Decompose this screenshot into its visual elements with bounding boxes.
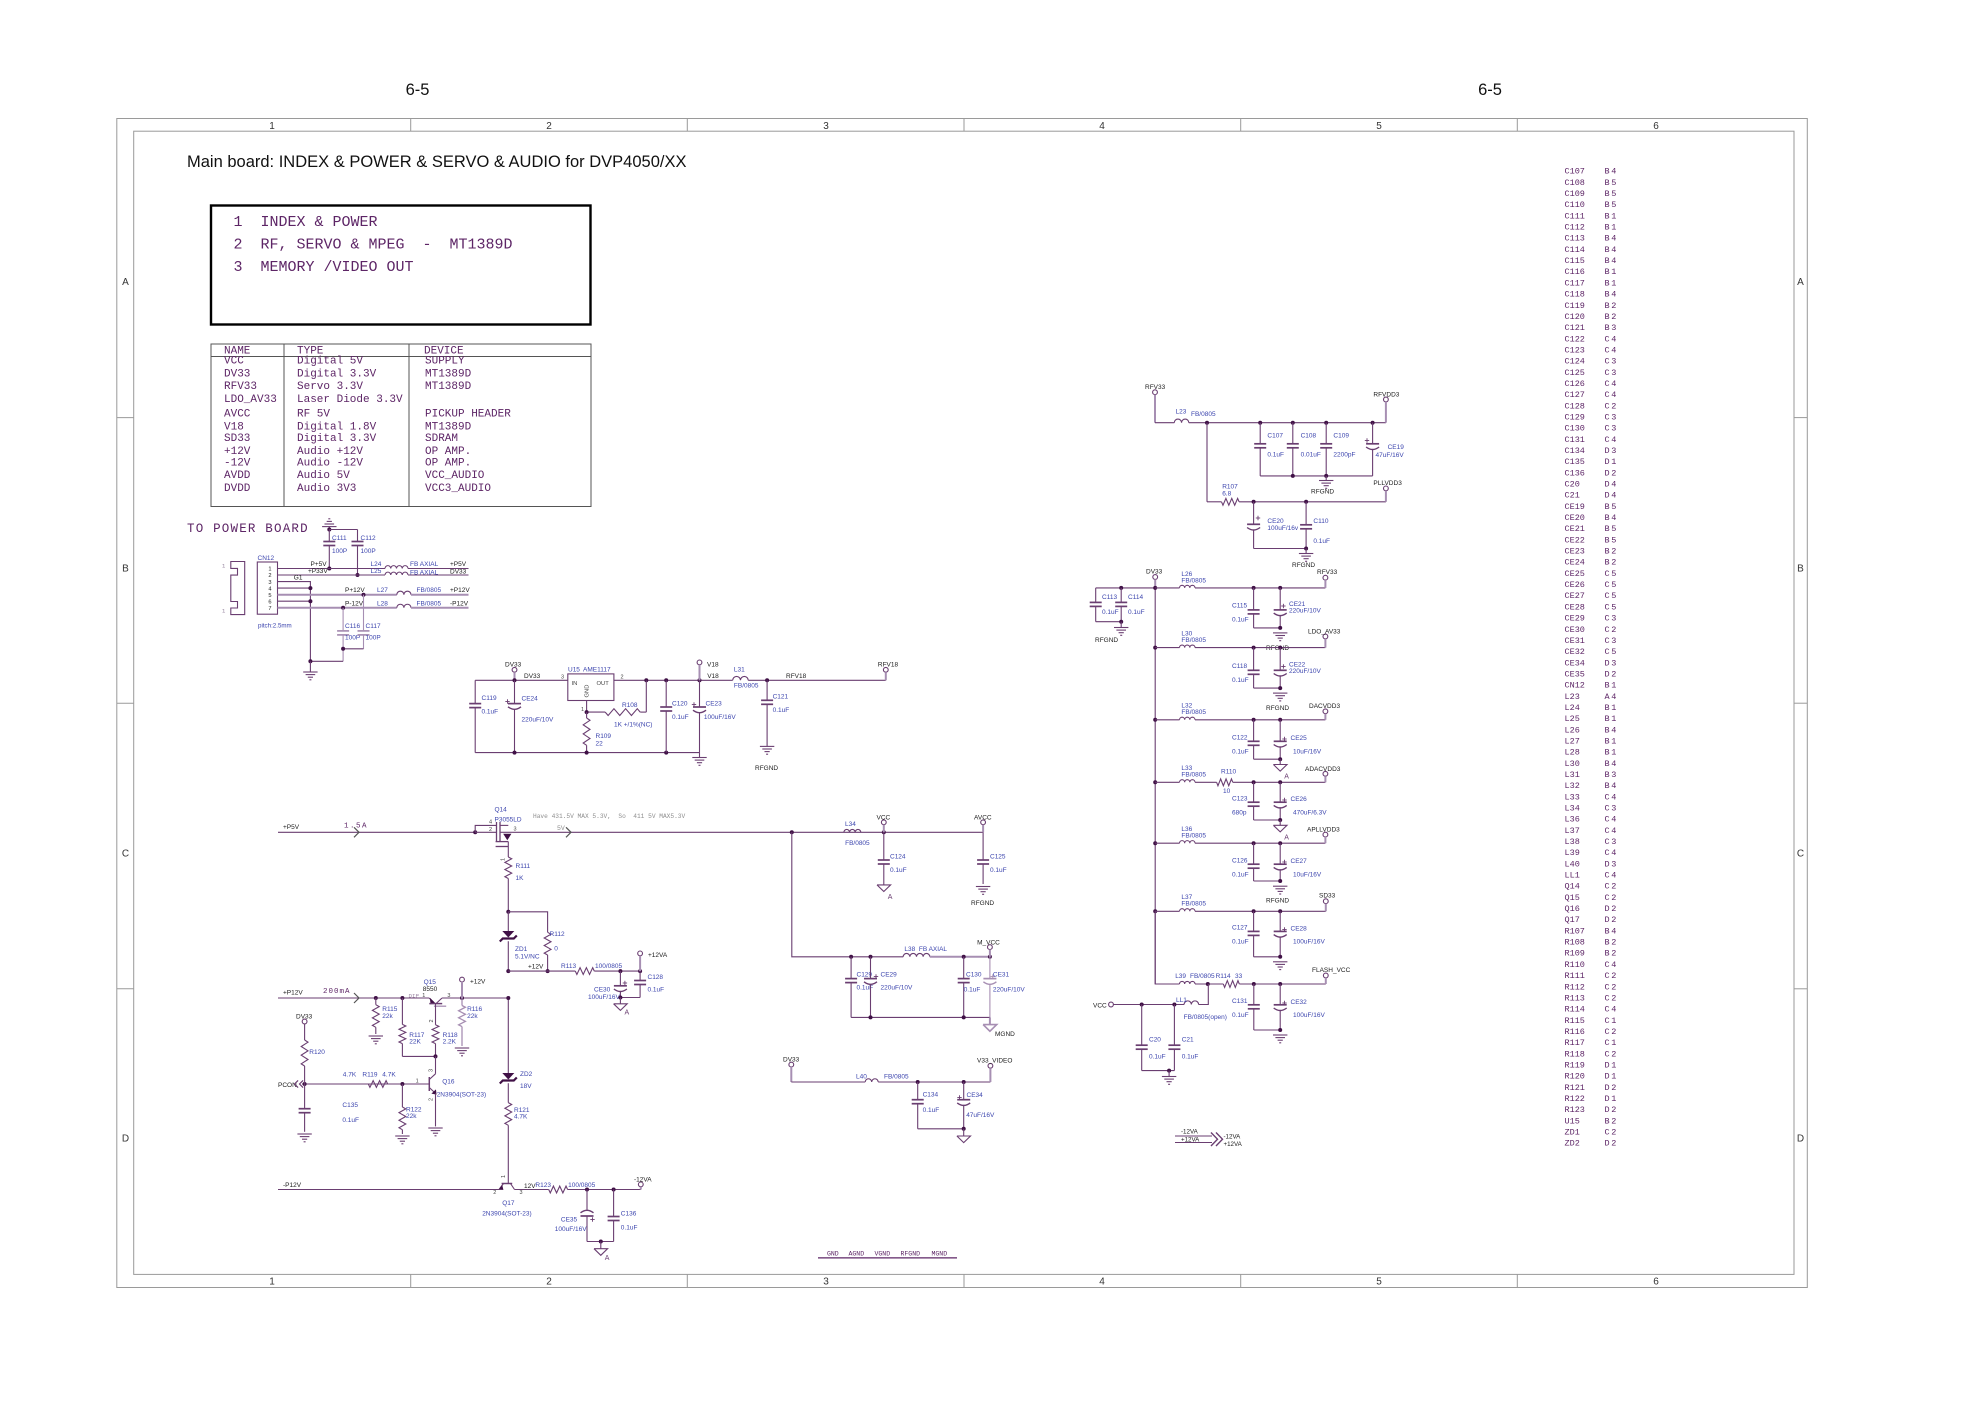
- svg-text:C: C: [1605, 435, 1610, 445]
- junction: [962, 955, 966, 959]
- wire: [1254, 758, 1281, 760]
- svg-text:5: 5: [268, 593, 271, 599]
- ground AGND: [1279, 820, 1281, 825]
- svg-text:C20: C20: [1565, 480, 1580, 490]
- svg-text:R110: R110: [1221, 769, 1236, 776]
- junction: [882, 830, 886, 834]
- svg-text:C120: C120: [1565, 312, 1585, 322]
- svg-text:B: B: [1605, 278, 1610, 288]
- svg-text:R110: R110: [1565, 960, 1585, 970]
- svg-text:C: C: [1605, 960, 1610, 970]
- svg-text:C135: C135: [342, 1102, 358, 1109]
- svg-text:C121: C121: [773, 694, 789, 701]
- svg-text:C121: C121: [1565, 323, 1585, 333]
- wire -12VA: [1175, 1135, 1212, 1137]
- svg-text:D: D: [1605, 1105, 1610, 1115]
- svg-text:RFGND: RFGND: [1266, 705, 1289, 712]
- capacitor C123: [1253, 782, 1255, 802]
- junction: [962, 1015, 966, 1019]
- svg-text:CE27: CE27: [1565, 591, 1585, 601]
- svg-text:L24: L24: [371, 561, 382, 568]
- wire: [435, 1056, 437, 1073]
- svg-text:R113: R113: [561, 963, 576, 970]
- svg-text:1: 1: [1611, 703, 1616, 713]
- junction: [341, 606, 345, 610]
- svg-text:4: 4: [1611, 692, 1616, 702]
- junction: [1278, 686, 1282, 690]
- resistor R121: [505, 1103, 512, 1126]
- junction: [327, 567, 331, 571]
- inductor LL1: [1184, 1001, 1199, 1005]
- svg-text:R115: R115: [382, 1006, 397, 1013]
- svg-text:2: 2: [546, 121, 552, 132]
- svg-text:4: 4: [1611, 379, 1616, 389]
- svg-text:Q14: Q14: [495, 807, 508, 814]
- svg-text:2N3904(SOT-23): 2N3904(SOT-23): [482, 1211, 532, 1218]
- node DACVDD3 terminal: [1323, 709, 1328, 714]
- arrow: [1211, 1133, 1218, 1147]
- svg-text:+12V: +12V: [224, 446, 251, 458]
- capacitor CE32: [1279, 984, 1281, 1005]
- svg-text:C: C: [1605, 993, 1610, 1003]
- svg-text:6-5: 6-5: [1478, 81, 1502, 99]
- svg-text:SUPPLY: SUPPLY: [425, 356, 465, 368]
- svg-text:ZD1: ZD1: [1565, 1127, 1580, 1137]
- svg-text:3: 3: [561, 674, 564, 680]
- svg-text:C127: C127: [1232, 925, 1248, 932]
- svg-text:LDO_AV33: LDO_AV33: [224, 394, 277, 406]
- svg-text:2: 2: [1611, 625, 1616, 635]
- resistor R111: [507, 847, 509, 858]
- svg-text:L34: L34: [1565, 804, 1580, 814]
- junction: [618, 996, 622, 1000]
- svg-text:3: 3: [823, 1277, 829, 1288]
- capacitor C126: [1253, 843, 1255, 864]
- wire: [310, 660, 343, 662]
- arrow: [566, 827, 571, 837]
- wire: [1155, 910, 1179, 912]
- svg-text:D: D: [1605, 1083, 1610, 1093]
- svg-text:C114: C114: [1565, 245, 1585, 255]
- svg-text:RFVDD3: RFVDD3: [1373, 392, 1399, 399]
- junction: [473, 830, 477, 834]
- svg-text:CE31: CE31: [993, 972, 1010, 979]
- svg-text:5: 5: [1611, 535, 1616, 545]
- capacitor CE30: [619, 971, 621, 986]
- svg-text:C: C: [1605, 815, 1610, 825]
- svg-text:C113: C113: [1102, 594, 1117, 601]
- svg-text:P+12V: P+12V: [345, 587, 365, 594]
- junction: [362, 593, 366, 597]
- svg-text:2: 2: [1611, 1083, 1616, 1093]
- junction: [1205, 421, 1209, 425]
- svg-text:3: 3: [428, 1069, 434, 1072]
- svg-text:0.1uF: 0.1uF: [1267, 452, 1284, 459]
- svg-text:OP AMP.: OP AMP.: [425, 446, 471, 458]
- inductor L37: [1180, 909, 1195, 912]
- svg-text:2: 2: [489, 827, 492, 833]
- svg-text:C134: C134: [1565, 446, 1585, 456]
- capacitor C110: [1305, 502, 1307, 525]
- svg-text:5: 5: [1611, 591, 1616, 601]
- svg-text:C: C: [1605, 647, 1610, 657]
- svg-text:1: 1: [501, 1175, 507, 1178]
- svg-text:+12V: +12V: [470, 979, 486, 986]
- svg-text:B: B: [1605, 748, 1610, 758]
- svg-text:R116: R116: [1565, 1027, 1585, 1037]
- svg-text:U15: U15: [568, 667, 580, 674]
- svg-text:C119: C119: [482, 695, 497, 702]
- junction: [1291, 474, 1295, 478]
- svg-text:47uF/16V: 47uF/16V: [1376, 452, 1405, 459]
- junction: [962, 1127, 966, 1131]
- wire +12V rail: [508, 970, 575, 972]
- svg-text:D: D: [1605, 1072, 1610, 1082]
- junction: [1278, 841, 1282, 845]
- wire Q16 emitter: [435, 1093, 437, 1126]
- svg-text:FB/0805: FB/0805: [1181, 833, 1206, 840]
- capacitor CE23: [699, 680, 701, 707]
- svg-text:C: C: [1605, 826, 1610, 836]
- svg-text:3: 3: [1611, 770, 1616, 780]
- svg-text:D: D: [1605, 904, 1610, 914]
- svg-text:C: C: [1797, 849, 1804, 860]
- wire: [1189, 422, 1386, 424]
- junction: [916, 1080, 920, 1084]
- svg-text:C116: C116: [345, 623, 360, 630]
- svg-text:220uF/10V: 220uF/10V: [881, 985, 913, 992]
- svg-text:C: C: [1605, 569, 1610, 579]
- capacitor CE25: [1279, 720, 1281, 742]
- svg-text:C: C: [1605, 424, 1610, 434]
- svg-text:B: B: [1605, 211, 1610, 221]
- svg-text:C: C: [1605, 614, 1610, 624]
- svg-text:3: 3: [1611, 804, 1616, 814]
- wire P+12V: [278, 594, 397, 596]
- svg-text:1: 1: [1611, 748, 1616, 758]
- svg-text:1 INDEX & POWER: 1 INDEX & POWER: [234, 214, 378, 231]
- svg-text:DVDD: DVDD: [224, 483, 251, 495]
- svg-text:3: 3: [1611, 368, 1616, 378]
- junction: [962, 1080, 966, 1084]
- wire: [1254, 627, 1281, 629]
- svg-text:470uF/6.3V: 470uF/6.3V: [1293, 810, 1327, 817]
- capacitor C115: [1253, 588, 1255, 610]
- svg-text:3: 3: [1611, 859, 1616, 869]
- junction: [790, 830, 794, 834]
- svg-text:CE23: CE23: [706, 701, 723, 708]
- ground AGND: [1279, 759, 1281, 764]
- svg-text:L34: L34: [845, 821, 856, 828]
- ground RFGND: [1325, 476, 1327, 481]
- svg-text:2: 2: [1611, 558, 1616, 568]
- junction: [1153, 841, 1157, 845]
- ground MGND: [989, 1017, 991, 1024]
- junction: [308, 659, 312, 663]
- svg-text:1: 1: [581, 707, 584, 713]
- resistor R114: [1223, 981, 1239, 988]
- svg-text:FB/0805: FB/0805: [417, 587, 442, 594]
- inductor L36: [1180, 841, 1195, 844]
- svg-text:18V: 18V: [520, 1083, 532, 1090]
- wire +P5V rail: [278, 831, 475, 833]
- svg-text:CE30: CE30: [1565, 625, 1585, 635]
- svg-text:FB/0805: FB/0805: [417, 600, 442, 607]
- svg-text:2: 2: [1611, 904, 1616, 914]
- svg-text:+P12V: +P12V: [283, 990, 303, 997]
- wire DV33 rail: [475, 679, 568, 681]
- svg-text:2200pF: 2200pF: [1333, 452, 1355, 459]
- svg-text:2: 2: [268, 573, 271, 579]
- svg-text:R109: R109: [1565, 949, 1585, 959]
- svg-text:R119: R119: [1565, 1060, 1585, 1070]
- svg-text:B: B: [1605, 245, 1610, 255]
- svg-text:G1: G1: [294, 575, 303, 582]
- svg-text:TO POWER BOARD: TO POWER BOARD: [187, 522, 309, 536]
- svg-text:R118: R118: [1565, 1049, 1585, 1059]
- svg-text:4.7K: 4.7K: [343, 1072, 357, 1079]
- ground RFGND: [1305, 549, 1307, 554]
- svg-text:FB/0805: FB/0805: [1181, 637, 1206, 644]
- svg-text:B: B: [1605, 938, 1610, 948]
- svg-text:CE19: CE19: [1565, 502, 1585, 512]
- junction: [1252, 586, 1256, 590]
- svg-text:C: C: [1605, 792, 1610, 802]
- svg-text:C: C: [1605, 591, 1610, 601]
- svg-text:3: 3: [1611, 837, 1616, 847]
- wire DV33: [408, 574, 469, 576]
- svg-text:B: B: [1605, 223, 1610, 233]
- node PLLVDD3 terminal: [1384, 486, 1389, 491]
- junction: [1119, 586, 1123, 590]
- svg-text:+P12V: +P12V: [450, 587, 470, 594]
- capacitor CE22: [1279, 648, 1281, 671]
- svg-text:PLLVDD3: PLLVDD3: [1373, 480, 1402, 487]
- svg-text:R119: R119: [362, 1072, 377, 1079]
- svg-text:C131: C131: [1232, 998, 1248, 1005]
- junction: [765, 678, 769, 682]
- capacitor CE19: [1372, 423, 1374, 444]
- svg-text:B: B: [1605, 267, 1610, 277]
- svg-text:L39: L39: [1565, 848, 1580, 858]
- wire: [1113, 1004, 1184, 1006]
- wire: [1254, 548, 1307, 550]
- svg-text:VCC_AUDIO: VCC_AUDIO: [425, 470, 485, 482]
- capacitor CE24: [514, 680, 516, 703]
- node RFVDD3 terminal: [1384, 397, 1389, 402]
- junction: [1324, 474, 1328, 478]
- svg-text:L26: L26: [1565, 725, 1580, 735]
- svg-text:0.1uF: 0.1uF: [923, 1107, 940, 1114]
- svg-text:100P: 100P: [361, 548, 376, 555]
- svg-text:B: B: [1605, 770, 1610, 780]
- svg-text:B: B: [1605, 535, 1610, 545]
- svg-text:B: B: [1605, 256, 1610, 266]
- svg-text:A: A: [1284, 834, 1289, 841]
- svg-text:AGND: AGND: [849, 1250, 865, 1257]
- inductor L34: [844, 829, 861, 832]
- wire +P12V rail: [278, 997, 429, 999]
- capacitor C134: [917, 1082, 919, 1100]
- svg-text:10uF/16V: 10uF/16V: [1293, 872, 1322, 879]
- svg-text:C115: C115: [1565, 256, 1585, 266]
- svg-text:-P12V: -P12V: [450, 600, 469, 607]
- svg-text:L28: L28: [377, 600, 388, 607]
- svg-text:4: 4: [1611, 513, 1616, 523]
- capacitor C107: [1259, 423, 1261, 444]
- ground RFGND: [1273, 885, 1287, 887]
- svg-text:1: 1: [501, 858, 507, 861]
- svg-text:B: B: [1605, 714, 1610, 724]
- svg-text:10uF/16V: 10uF/16V: [1293, 749, 1322, 756]
- junction: [308, 586, 312, 590]
- svg-text:2: 2: [428, 1098, 434, 1101]
- capacitor C129: [850, 957, 852, 979]
- svg-text:220uF/10V: 220uF/10V: [1289, 668, 1321, 675]
- svg-text:33: 33: [1235, 973, 1243, 980]
- svg-text:R114: R114: [1565, 1005, 1585, 1015]
- svg-text:AME1117: AME1117: [583, 667, 611, 674]
- svg-text:FB/0805: FB/0805: [1181, 709, 1206, 716]
- svg-text:1: 1: [1611, 1072, 1616, 1082]
- svg-text:22K: 22K: [409, 1039, 421, 1046]
- junction: [513, 751, 517, 755]
- junction: [638, 969, 642, 973]
- svg-text:B: B: [1605, 547, 1610, 557]
- wire PLLVDD3 rail: [1239, 501, 1386, 503]
- svg-text:VCC3_AUDIO: VCC3_AUDIO: [425, 483, 491, 495]
- svg-text:R111: R111: [1565, 971, 1585, 981]
- capacitor C116: [342, 608, 344, 631]
- svg-text:Q16: Q16: [442, 1079, 455, 1086]
- wire: [918, 1128, 964, 1130]
- svg-text:220uF/10V: 220uF/10V: [522, 717, 554, 724]
- svg-text:ADACVDD3: ADACVDD3: [1305, 766, 1341, 773]
- wire: [594, 970, 640, 972]
- svg-text:100uF/16v: 100uF/16v: [1267, 525, 1298, 532]
- svg-text:B: B: [1605, 189, 1610, 199]
- ground: [297, 1133, 311, 1135]
- svg-text:RF 5V: RF 5V: [297, 409, 330, 421]
- svg-text:0.1uF: 0.1uF: [990, 867, 1007, 874]
- capacitor CE31: [989, 957, 991, 979]
- svg-text:6: 6: [1653, 121, 1659, 132]
- svg-text:0.1uF: 0.1uF: [1149, 1054, 1166, 1061]
- resistor R112: [544, 932, 551, 955]
- svg-text:L30: L30: [1565, 759, 1580, 769]
- svg-text:L38: L38: [1565, 837, 1580, 847]
- capacitor C127: [1253, 911, 1255, 931]
- svg-text:C: C: [1605, 837, 1610, 847]
- svg-text:1: 1: [1611, 1094, 1616, 1104]
- svg-text:0.1uF: 0.1uF: [1232, 677, 1249, 684]
- svg-text:12V: 12V: [524, 1183, 536, 1190]
- svg-text:SD33: SD33: [224, 433, 250, 445]
- svg-text:C112: C112: [361, 535, 376, 542]
- svg-text:0.1uF: 0.1uF: [342, 1117, 359, 1124]
- svg-text:A: A: [605, 1255, 610, 1262]
- svg-text:RFV33: RFV33: [1317, 569, 1338, 576]
- ground AGND: [619, 998, 621, 1004]
- junction: [599, 1240, 603, 1244]
- svg-text:4: 4: [489, 820, 492, 826]
- svg-text:RFGND: RFGND: [1292, 562, 1315, 569]
- svg-text:L23: L23: [1176, 409, 1187, 416]
- wire: [1155, 842, 1179, 844]
- junction: [1278, 780, 1282, 784]
- svg-text:CE32: CE32: [1291, 999, 1308, 1006]
- svg-text:R108: R108: [622, 702, 638, 709]
- svg-text:3: 3: [520, 1190, 523, 1196]
- svg-text:A: A: [122, 277, 129, 288]
- svg-text:FB/0805: FB/0805: [845, 840, 870, 847]
- svg-text:1: 1: [268, 567, 271, 573]
- junction: [1153, 780, 1157, 784]
- svg-text:C: C: [122, 849, 129, 860]
- junction: [1172, 1003, 1176, 1007]
- junction: [1252, 909, 1256, 913]
- svg-text:C115: C115: [1232, 603, 1247, 610]
- svg-text:B: B: [1605, 725, 1610, 735]
- svg-text:+12VA: +12VA: [1224, 1141, 1243, 1148]
- node V33_VIDEO terminal: [988, 1063, 993, 1068]
- svg-text:Digital 5V: Digital 5V: [297, 356, 363, 368]
- svg-text:5: 5: [1611, 569, 1616, 579]
- svg-text:4: 4: [1611, 234, 1616, 244]
- svg-text:DV33: DV33: [524, 673, 541, 680]
- svg-text:5: 5: [1611, 647, 1616, 657]
- svg-text:3: 3: [268, 580, 271, 586]
- svg-text:R120: R120: [309, 1049, 325, 1056]
- wire: [1254, 880, 1281, 882]
- svg-text:22k: 22k: [382, 1013, 393, 1020]
- wire: [568, 1189, 641, 1191]
- svg-text:VCC: VCC: [877, 815, 891, 822]
- svg-text:0.1uF: 0.1uF: [1313, 538, 1330, 545]
- capacitor C108: [1292, 423, 1294, 444]
- svg-text:6: 6: [1653, 1277, 1659, 1288]
- svg-text:LL1: LL1: [1565, 871, 1580, 881]
- inductor L30: [1180, 645, 1195, 648]
- svg-text:RFV33: RFV33: [1145, 384, 1166, 391]
- wire: [1260, 475, 1372, 477]
- junction: [1153, 586, 1157, 590]
- junction: [612, 1188, 616, 1192]
- wire P-12V: [278, 607, 397, 609]
- capacitor C125: [982, 832, 984, 860]
- diode ZD1: [507, 912, 509, 931]
- svg-text:DACVDD3: DACVDD3: [1309, 703, 1340, 710]
- svg-text:C120: C120: [672, 701, 688, 708]
- svg-text:MT1389D: MT1389D: [425, 381, 472, 393]
- svg-text:RFV33: RFV33: [224, 381, 257, 393]
- svg-text:C128: C128: [648, 974, 664, 981]
- svg-text:VCC: VCC: [1093, 1003, 1107, 1010]
- svg-text:L40: L40: [856, 1074, 867, 1081]
- svg-text:L39: L39: [1175, 973, 1186, 980]
- svg-text:PCON: PCON: [278, 1082, 297, 1089]
- svg-text:22k: 22k: [406, 1113, 417, 1120]
- svg-text:B: B: [1605, 234, 1610, 244]
- wire +P33V: [278, 574, 386, 576]
- svg-text:R123: R123: [535, 1182, 551, 1189]
- svg-text:R123: R123: [1565, 1105, 1585, 1115]
- svg-text:ZD2: ZD2: [520, 1071, 533, 1078]
- junction: [1278, 982, 1282, 986]
- svg-text:C: C: [1605, 345, 1610, 355]
- svg-text:2: 2: [1611, 1127, 1616, 1137]
- svg-text:C21: C21: [1182, 1037, 1194, 1044]
